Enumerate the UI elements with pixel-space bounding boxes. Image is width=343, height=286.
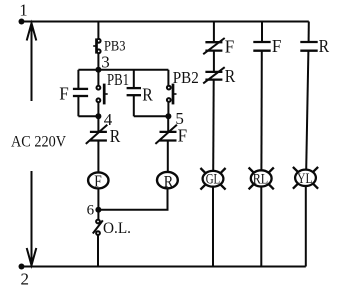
wire O.L. to L2	[97, 235, 99, 267]
wire PB1 lower stub	[97, 102, 99, 116]
contact R (NC, GL branch)	[203, 67, 225, 83]
AC source arrow up	[27, 23, 37, 101]
svg-text:6: 6	[87, 202, 95, 218]
node 5	[165, 113, 171, 119]
wire PB3 to node 3	[97, 53, 99, 70]
wire F contact upper stub	[77, 70, 79, 89]
wire lamp GL to L2	[212, 187, 214, 267]
svg-text:GL: GL	[206, 171, 221, 187]
contact F (NC, GL branch)	[203, 38, 225, 54]
wire right box bottom	[134, 115, 169, 117]
node 3	[95, 67, 101, 73]
wire between F and R contacts (GL branch)	[213, 51, 215, 72]
wire L1 to F contact (GL branch)	[213, 22, 215, 43]
svg-text:R: R	[110, 126, 121, 146]
wire lamp YL to L2	[305, 186, 307, 267]
contact R (NO, YL branch)	[300, 42, 317, 51]
wire parallel branch top	[78, 69, 168, 71]
wire L2 bottom rail	[20, 266, 306, 268]
svg-text:R: R	[225, 66, 236, 86]
wire lamp RL to L2	[260, 187, 262, 267]
svg-text:F: F	[94, 171, 102, 190]
wire L1 to R contact (YL branch)	[308, 22, 310, 43]
lamp YL	[293, 167, 318, 189]
contact F (NC interlock)	[155, 125, 177, 144]
svg-text:2: 2	[21, 270, 30, 286]
node 4	[95, 113, 101, 119]
svg-text:F: F	[59, 83, 69, 103]
svg-text:R: R	[319, 36, 330, 56]
wire PB1 upper stub	[97, 70, 99, 86]
wire R interlock to coil F	[97, 141, 99, 173]
svg-text:F: F	[272, 36, 282, 56]
contact R (NO seal-in)	[127, 88, 141, 95]
pushbutton PB3 (NC)	[93, 38, 100, 53]
wire R contact upper stub	[133, 70, 135, 88]
overload contact O.L.	[93, 220, 103, 235]
node 1	[19, 19, 25, 25]
contact R (NC interlock)	[86, 125, 108, 144]
wire node 6 to coil R	[98, 188, 167, 209]
wire coil F to node 6	[97, 188, 99, 209]
pushbutton PB1 (NO)	[97, 84, 108, 105]
wire contact R to lamp YL	[306, 51, 308, 170]
node 2	[19, 264, 25, 270]
wire left box bottom	[78, 115, 98, 117]
coil F	[88, 171, 108, 190]
wire PB2 lower stub	[167, 102, 169, 116]
AC source arrow down	[27, 171, 37, 265]
wire F contact lower stub	[77, 96, 79, 116]
wire R contact lower stub	[133, 95, 135, 116]
wire L1 to PB3	[97, 22, 99, 40]
svg-text:F: F	[178, 125, 188, 145]
svg-text:3: 3	[101, 53, 110, 72]
wire F interlock to coil R	[167, 141, 169, 173]
wire L1 top rail	[20, 21, 309, 23]
wire node 4 to R interlock	[97, 116, 99, 132]
svg-text:F: F	[225, 36, 235, 56]
wire node 6 to O.L.	[97, 210, 99, 220]
svg-text:PB2: PB2	[173, 68, 199, 87]
wire PB2 upper stub	[167, 70, 169, 86]
svg-text:YL: YL	[297, 171, 313, 187]
wire node 5 to F interlock	[167, 116, 169, 132]
contact F (NO, RL branch)	[253, 42, 270, 51]
pushbutton PB2 (NO)	[167, 84, 177, 105]
coil R	[157, 172, 178, 191]
wire contact R to lamp GL	[212, 80, 215, 171]
wire L1 to F contact (RL branch)	[261, 22, 263, 43]
svg-text:PB1: PB1	[107, 70, 129, 89]
node 6	[95, 207, 101, 213]
svg-text:RL: RL	[253, 171, 269, 187]
contact F (NO seal-in)	[73, 89, 88, 96]
lamp GL	[200, 168, 225, 190]
svg-text:R: R	[164, 172, 174, 191]
svg-text:O.L.: O.L.	[103, 220, 131, 237]
svg-text:1: 1	[19, 1, 27, 20]
lamp RL	[249, 168, 274, 190]
wire contact F to lamp RL	[260, 51, 262, 171]
svg-text:AC 220V: AC 220V	[11, 133, 66, 150]
svg-text:R: R	[142, 84, 153, 104]
